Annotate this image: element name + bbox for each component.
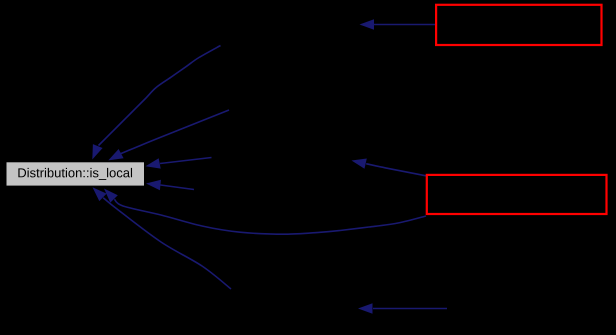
edge E5 short arrow into gray node right lower — [146, 180, 194, 190]
edge E1 red-box-1 to hidden node (top horizontal) — [360, 19, 436, 30]
edge E3 diagonal into gray node top-right — [108, 110, 229, 160]
edge E9 bottom horizontal arrow — [358, 303, 447, 314]
node red-box-1 (top right, truncated caller) — [436, 5, 601, 45]
node red-box-2 (middle right, truncated caller) — [427, 175, 607, 214]
edge E8 red-box-2 to hidden middle node — [352, 159, 427, 176]
edge E4 short arrow into gray node right upper — [146, 158, 212, 169]
edge E7 curve from bottom hidden node into gray node bottom — [93, 187, 232, 289]
edge E6 long curve from red-box-2 into gray node bottom — [104, 189, 426, 235]
edge E2 big top curve into gray node top — [92, 46, 220, 160]
node Distribution::is_local (current function, gray) — [7, 162, 145, 185]
